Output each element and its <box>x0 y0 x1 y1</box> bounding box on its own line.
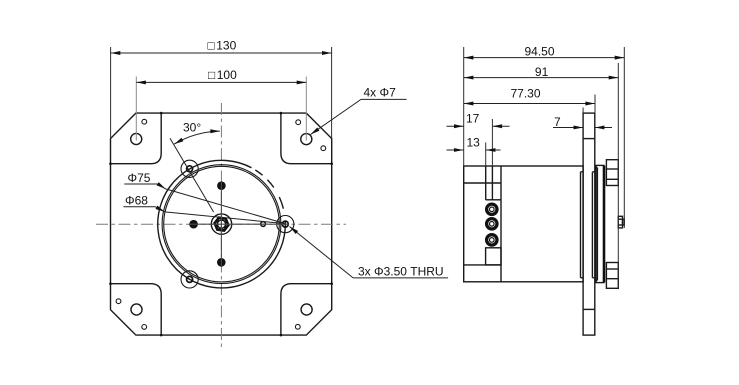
front view: small circle right of center <box>261 222 266 227</box>
front view: mounting hole Φ7 top-right <box>301 134 312 145</box>
svg-text:Φ75: Φ75 <box>128 171 151 185</box>
side view: flange pilot line <box>591 172 593 278</box>
svg-text:77.30: 77.30 <box>511 86 541 100</box>
dimension line 100 <box>136 81 306 83</box>
svg-text:Φ68: Φ68 <box>125 194 148 208</box>
angular dimension 30° radial line <box>170 138 214 212</box>
label Φ68 with leader <box>123 206 155 208</box>
side view: top bolt head <box>606 160 618 186</box>
front view: mounting hole Φ7 top-left <box>131 133 142 144</box>
side view: connector channel <box>485 166 487 200</box>
side view: connector 3 <box>487 235 497 245</box>
side view: center tab connector <box>618 216 622 228</box>
side view extension line left (body left edge) <box>463 47 465 166</box>
svg-text:□130: □130 <box>208 39 237 53</box>
side view: connector 1 <box>487 204 497 214</box>
label 3x Φ3.50 THRU with leader <box>353 277 448 279</box>
dimension line 91 <box>464 77 618 79</box>
front view: bolt circle Φ75 (solid part) <box>158 160 286 288</box>
front view: pin hole top-left corner <box>142 119 147 124</box>
front view: center line solid segment vertical <box>220 182 222 266</box>
front view: junction dots <box>160 112 163 115</box>
front view: filled dot bottom <box>217 258 226 267</box>
front view: mounting hole Φ7 bottom-left <box>131 304 142 315</box>
angular dimension 30° arc <box>174 131 220 144</box>
front view: Φ3.50 thru hole right (inner circle) <box>282 221 288 227</box>
front view: filled dot top <box>217 181 226 190</box>
side view extension line 13 <box>485 142 487 166</box>
svg-text:13: 13 <box>467 135 481 149</box>
front view: pin hole top-right corner lower <box>321 146 326 151</box>
side view: rear housing divider <box>500 166 502 282</box>
front view: top-right corner pocket boundary <box>281 113 332 164</box>
front view: vertical center line <box>220 103 222 350</box>
dimension extension lines for 100 <box>135 77 137 141</box>
front view: pin hole bottom-left corner lower <box>142 325 147 330</box>
label 4x Φ7 with leader <box>361 98 407 100</box>
side view: lower bracket box <box>486 248 501 265</box>
front view: flange plate outline (130x130, chamfered corners) <box>111 113 332 335</box>
front view: shaft outer circle <box>211 214 231 234</box>
side view extension line 94.50 right <box>623 47 625 228</box>
front view: Φ3.50 thru hole bottom-left (outer circle) <box>181 271 198 288</box>
svg-text:4x Φ7: 4x Φ7 <box>364 86 397 100</box>
front view: pilot circle Φ70 <box>162 165 281 284</box>
front view: mounting hole Φ7 bottom-right <box>301 304 312 315</box>
front view: horizontal center line <box>96 223 346 225</box>
side view: flange chamfer edge top <box>583 138 595 140</box>
side view extension line 91 right <box>617 63 619 288</box>
side view: rear housing top step line <box>464 182 501 184</box>
dimension extension lines for 130 <box>110 47 112 138</box>
front view: bottom-right corner pocket boundary <box>281 284 332 335</box>
front view: Φ3.50 thru hole bottom-left (inner circle) <box>187 276 193 282</box>
svg-text:17: 17 <box>466 112 480 126</box>
front view: filled dot left <box>189 220 198 229</box>
front view: Φ3.50 thru hole top-left (outer circle) <box>181 160 198 177</box>
side view extension line 17 <box>491 119 493 166</box>
svg-text:7: 7 <box>554 115 561 129</box>
side view: flange chamfer edge bottom <box>583 308 595 310</box>
dimension line 130 <box>111 52 332 54</box>
svg-text:94.50: 94.50 <box>525 45 555 59</box>
svg-text:30°: 30° <box>183 121 201 135</box>
side view: output disc <box>596 165 604 282</box>
side view extension line 77.30 right <box>594 95 596 114</box>
side view: output disc step line <box>596 168 598 281</box>
side view: rear housing bottom step line <box>464 264 501 266</box>
svg-text:91: 91 <box>535 65 549 79</box>
dimension line 7 <box>553 127 583 129</box>
front view: pin hole top-right corner upper <box>296 120 301 125</box>
side view: spacer between body and flange <box>580 172 582 278</box>
dimension line 94.50 <box>464 57 624 59</box>
dimension line 13 <box>447 149 464 151</box>
side view: bottom bolt head <box>606 263 618 289</box>
front view: shaft hex socket <box>215 218 229 231</box>
dimension line 77.30 <box>464 103 595 105</box>
front view: bolt circle Φ75 (dashed NE segment) <box>255 170 283 209</box>
side view extension line 7 left <box>582 108 584 114</box>
front view: top-left corner pocket boundary <box>111 113 162 164</box>
front view: circle Φ68 <box>164 166 280 282</box>
front view: shaft inner circle <box>217 220 225 228</box>
front view: center line solid segment horizontal <box>190 223 289 225</box>
side view: mounting flange plate (7mm) <box>583 113 595 335</box>
svg-text:□100: □100 <box>208 68 237 82</box>
front view: bottom-left corner pocket boundary <box>111 284 162 335</box>
dimension line 17 <box>447 125 464 127</box>
front view: Φ3.50 thru hole top-left (inner circle) <box>187 166 193 172</box>
front view: pin hole bottom-right corner <box>295 324 300 329</box>
side view: motor body outline <box>464 166 583 282</box>
front view: Φ3.50 thru hole right (outer circle) <box>277 216 294 233</box>
svg-text:3x Φ3.50 THRU: 3x Φ3.50 THRU <box>358 265 444 279</box>
label Φ75 with leader <box>124 183 158 185</box>
side view: connector 2 <box>487 219 497 229</box>
front view: pin hole bottom-left corner upper <box>116 299 121 304</box>
